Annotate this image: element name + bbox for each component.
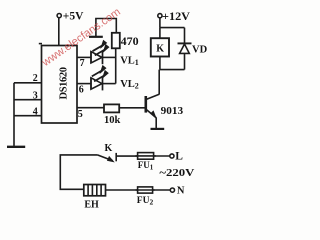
wire +12V down — [159, 18, 161, 28]
op-amp U1 DS1620 IC body — [42, 46, 78, 124]
svg-text:FU2: FU2 — [137, 196, 154, 207]
wire top rail — [160, 27, 185, 29]
fuse FU1 — [138, 153, 154, 160]
diode VD — [178, 42, 192, 44]
svg-text:+5V: +5V — [63, 10, 84, 22]
svg-text:~220V: ~220V — [159, 167, 194, 179]
pin 1 stub — [39, 43, 42, 45]
svg-text:L: L — [175, 151, 183, 163]
wire contact to FU1 — [116, 155, 137, 157]
svg-text:470: 470 — [121, 36, 139, 48]
svg-text:+12V: +12V — [162, 11, 191, 23]
relay contact K — [97, 155, 112, 161]
LED VL1 — [90, 51, 92, 63]
wire VD top — [184, 28, 186, 44]
wire pin 4 — [14, 115, 42, 117]
wire +5V to IC pin8 — [58, 18, 60, 46]
resistor 10k — [104, 104, 119, 112]
wire pins to ground — [13, 83, 15, 146]
+12V terminal — [158, 14, 162, 18]
wire FU1 to L — [154, 155, 170, 157]
ground — [7, 146, 25, 148]
wire VD bottom — [184, 53, 186, 69]
svg-text:9013: 9013 — [161, 105, 184, 117]
svg-text:FU1: FU1 — [138, 160, 154, 172]
wire pin 7 — [77, 56, 91, 58]
wire pin 2 — [14, 82, 42, 84]
transistor emitter arrow — [151, 111, 156, 118]
ground (LED) — [89, 36, 103, 38]
wire VL2 cathode — [103, 83, 116, 85]
svg-text:2: 2 — [33, 73, 38, 84]
svg-text:DS1620: DS1620 — [59, 67, 70, 100]
wire FU2 to N — [153, 189, 171, 191]
wire resistor top hook — [96, 19, 116, 37]
svg-text:10k: 10k — [104, 115, 121, 126]
watermark www.elecfans.com — [40, 6, 123, 69]
wire relay to rail — [159, 57, 161, 70]
svg-text:EH: EH — [84, 199, 99, 210]
wire pin 5 — [77, 107, 104, 109]
wire mains top — [60, 155, 97, 189]
ground (emitter) — [151, 128, 165, 130]
wire VL1 cathode — [103, 56, 116, 58]
wire EH to FU2 — [106, 189, 138, 191]
wire bottom rail to collector — [160, 69, 185, 71]
svg-text:7: 7 — [80, 58, 85, 69]
wire rail to relay — [159, 28, 161, 39]
resistor 470 — [112, 33, 120, 49]
svg-text:K: K — [156, 44, 164, 55]
LED VL1 emission arrows — [93, 45, 103, 51]
svg-text:5: 5 — [78, 109, 83, 120]
svg-text:VL1: VL1 — [120, 55, 139, 67]
svg-text:N: N — [177, 186, 185, 197]
svg-text:VD: VD — [192, 44, 208, 55]
wire 10k to base — [119, 107, 145, 109]
svg-text:4: 4 — [33, 107, 38, 118]
transistor Q1 9013 — [145, 96, 148, 113]
svg-text:6: 6 — [79, 85, 84, 96]
LED VL2 — [90, 78, 92, 90]
svg-text:3: 3 — [33, 90, 38, 101]
svg-text:VL2: VL2 — [120, 79, 139, 91]
svg-text:K: K — [105, 143, 113, 154]
wire pin 6 — [77, 83, 91, 85]
+5V terminal — [57, 14, 61, 18]
relay K coil — [151, 38, 169, 56]
heater EH — [84, 185, 106, 196]
terminal L — [170, 154, 174, 158]
fuse FU2 — [138, 187, 153, 193]
LED VL2 emission arrows — [92, 70, 102, 76]
wire pin 3 — [14, 99, 42, 101]
terminal N — [170, 188, 174, 192]
wire LED common cathode to resistor — [115, 48, 117, 83]
